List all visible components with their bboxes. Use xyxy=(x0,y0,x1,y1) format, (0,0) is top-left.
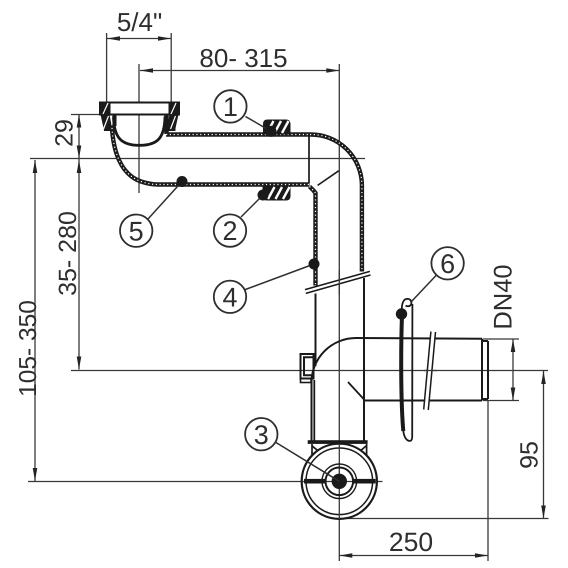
cleanout top bar xyxy=(308,440,368,444)
pipe top wall (textured) xyxy=(166,132,310,136)
elbow chamfer line xyxy=(318,171,339,186)
arrow 35-280 down xyxy=(77,357,82,370)
dim line DN40 xyxy=(512,339,514,401)
extension line x339 (long vertical) xyxy=(338,64,340,561)
svg-text:4: 4 xyxy=(222,282,237,312)
dim line 5/4 xyxy=(107,38,171,40)
arrow 95 up xyxy=(541,371,546,384)
inlet nut skirt right xyxy=(165,115,179,132)
leader lines xyxy=(148,117,436,482)
cleanout wings xyxy=(304,479,327,484)
arrow DN40 up xyxy=(511,339,516,352)
svg-text:95: 95 xyxy=(516,441,544,469)
svg-text:29: 29 xyxy=(51,119,79,147)
leader 6 xyxy=(412,275,437,301)
centerline outlet y370.5 xyxy=(71,370,548,372)
extension line y518 (95 bottom ref) xyxy=(339,518,548,520)
svg-text:6: 6 xyxy=(440,249,455,279)
arrow 5/4 right xyxy=(158,36,171,41)
cleanout cap outer circles xyxy=(302,444,377,519)
cleanout center dot xyxy=(332,474,347,489)
leader 3 xyxy=(276,443,339,482)
extension line y114 (29 top ref) xyxy=(71,114,100,116)
dim line 250 xyxy=(339,555,488,557)
extension line x106.6 (5/4 left) xyxy=(106,33,108,102)
outlet pipe bottom edge xyxy=(365,400,482,402)
inlet nut flange xyxy=(100,103,179,115)
dim line 95 xyxy=(543,371,545,519)
svg-text:2: 2 xyxy=(222,216,237,246)
svg-text:250: 250 xyxy=(389,527,433,557)
dim line 80-315 xyxy=(140,70,339,72)
svg-text:1: 1 xyxy=(223,92,238,122)
centerlines through cleanout xyxy=(302,481,377,483)
side lug on body xyxy=(301,354,314,383)
arrow 35-280 up xyxy=(77,160,82,173)
callout 6 xyxy=(431,247,463,279)
callout circles xyxy=(120,90,464,450)
outlet diagonal (socket) xyxy=(348,382,365,401)
callout 4 xyxy=(214,281,246,313)
callout 3 xyxy=(245,418,277,450)
seal block bottom (item 2) xyxy=(263,186,291,201)
elbow outer arc (textured) xyxy=(310,134,362,271)
inlet nut skirt left xyxy=(101,115,115,132)
callout 5 xyxy=(120,215,152,247)
body left wall inner line xyxy=(313,380,315,441)
trap inlet curve (textured bottom wall) xyxy=(112,124,310,185)
break (outlet pipe): white-out + lines xyxy=(424,332,438,411)
callout 2 xyxy=(214,214,246,246)
outlet pipe top edge continuation + end xyxy=(482,339,488,401)
extension line x488 (250 right) xyxy=(487,401,489,561)
seal block top (item 1) xyxy=(263,120,291,135)
wall flange (item 6) xyxy=(401,299,412,441)
leader 1 xyxy=(246,117,272,132)
svg-text:105- 350: 105- 350 xyxy=(15,300,42,397)
arrow 5/4 left xyxy=(107,36,120,41)
trap bell dome xyxy=(114,115,167,146)
arrow DN40 down xyxy=(511,388,516,401)
elbow inner vertical (textured) xyxy=(310,187,316,286)
arrow 105-350 down xyxy=(33,468,38,481)
arrow 29 down xyxy=(77,146,82,159)
svg-text:5: 5 xyxy=(129,216,144,246)
arrow 250 left xyxy=(339,553,352,558)
leader 4 xyxy=(244,264,314,290)
break (vertical pipe): white-out + lines xyxy=(305,270,371,295)
vertical pipe below break, left wall xyxy=(315,294,317,367)
cleanout hex corners xyxy=(312,444,367,457)
callout 1 xyxy=(214,90,246,122)
cleanout inner rings xyxy=(322,464,357,499)
centerline cleanout y481 xyxy=(28,481,383,483)
arrow 80-315 right xyxy=(326,68,339,73)
svg-text:5/4": 5/4" xyxy=(117,7,162,37)
body outer shoulder arc to outlet top xyxy=(312,338,483,441)
leader 2 xyxy=(241,195,263,217)
vertical pipe below break, right wall xyxy=(363,278,365,441)
arrow 105-350 up xyxy=(33,160,38,173)
leader dots xyxy=(177,126,408,320)
dim line 105-350 xyxy=(34,160,36,481)
leader 5 xyxy=(148,182,182,220)
svg-text:3: 3 xyxy=(254,420,269,450)
extension line y339 (DN40 top) xyxy=(483,338,519,340)
socket mouth line xyxy=(308,136,310,183)
svg-text:DN40: DN40 xyxy=(490,264,518,329)
arrow 250 right xyxy=(475,553,488,558)
arrow 95 down xyxy=(541,506,546,519)
centerline inlet x139 xyxy=(138,64,140,193)
svg-text:35- 280: 35- 280 xyxy=(54,211,82,296)
extension line y400.5 (DN40 bottom) xyxy=(483,400,519,402)
centerline horizontal pipe y158.5 xyxy=(30,158,365,160)
arrow 80-315 left xyxy=(140,68,153,73)
extension line x171.2 (5/4 right) xyxy=(170,33,172,102)
dim line 29 and 35-280 xyxy=(78,114,80,370)
svg-text:80- 315: 80- 315 xyxy=(199,43,287,73)
arrow 29 up xyxy=(77,115,82,128)
